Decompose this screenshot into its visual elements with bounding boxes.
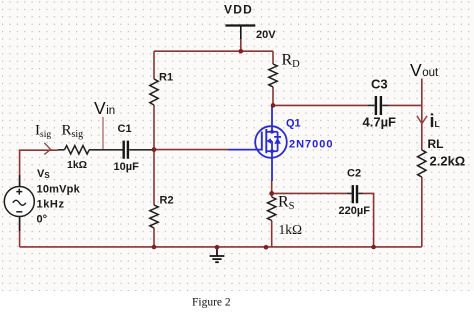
svg-text:1kΩ: 1kΩ [67,159,87,171]
current arrow Isig [44,143,50,155]
VDD supply bar [225,24,255,26]
wire: top VDD rail [154,50,273,52]
capacitor C3 [376,96,381,115]
wire: Vout stub [421,79,423,107]
wire: VDD stub lower part [240,38,242,51]
svg-text:1kΩ: 1kΩ [279,222,303,237]
wire: C2 right side down to rail [363,193,374,247]
junction dots [239,49,244,54]
svg-text:R2: R2 [160,195,174,207]
wire: bottom ground rail [20,246,422,248]
svg-text:Figure 2: Figure 2 [192,297,231,309]
svg-text:2.2kΩ: 2.2kΩ [430,154,466,169]
capacitor C3 leads [368,104,389,106]
svg-text:20V: 20V [256,29,276,41]
wire: RL branch verticals [421,105,423,247]
wire: Vs top lead up and right to Rsig [20,150,58,186]
wire: RD verticals [272,51,274,105]
current arrow iL [417,116,427,124]
wire: drain node to C3 and to Vout line [273,104,422,106]
wire: Vs bottom lead down to bottom rail [19,217,21,247]
wire: R2 branch verticals [153,150,155,247]
resistor RS [268,197,276,220]
svg-text:4.7µF: 4.7µF [363,115,397,130]
svg-text:Q1: Q1 [286,118,301,130]
capacitor C2 leads [347,192,363,194]
wire: black segment Rsig to C1 to junction [58,149,153,151]
svg-text:0°: 0° [37,214,48,226]
ground [210,247,225,262]
resistor RD [269,64,277,87]
svg-text:C1: C1 [118,123,132,135]
wire: Vin label stub [102,117,104,150]
svg-text:2N7000: 2N7000 [289,139,334,151]
AC source Vs [4,175,34,231]
wire: gate wire from C1 junction toward Q1 [154,149,228,151]
wire: source node down to RS [271,180,273,247]
svg-text:220µF: 220µF [339,205,371,217]
resistor RL [418,150,426,177]
capacitor C2 [353,185,357,203]
svg-text:RL: RL [428,137,444,151]
resistor Rsig [65,146,90,154]
svg-text:10mVpk: 10mVpk [37,184,81,196]
svg-text:1kHz: 1kHz [37,199,65,211]
svg-text:10µF: 10µF [114,161,140,173]
capacitor C1 [124,141,128,159]
svg-text:C3: C3 [371,77,388,92]
svg-text:C2: C2 [347,168,361,180]
wire: R1 branch verticals [153,51,155,149]
svg-text:VDD: VDD [224,3,253,17]
resistor R1 [150,79,158,105]
wire: RS node to C2 [272,192,347,194]
resistor R2 [150,205,158,228]
svg-text:R1: R1 [159,72,173,84]
transistor Q1 2N7000 MOSFET [228,106,287,181]
